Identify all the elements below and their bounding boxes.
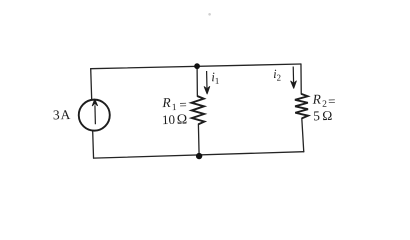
- svg-text:5Ω: 5Ω: [313, 108, 333, 123]
- svg-text:=: =: [328, 93, 336, 108]
- svg-text:10Ω: 10Ω: [162, 112, 187, 129]
- svg-text:1: 1: [215, 76, 220, 86]
- svg-text:=: =: [179, 97, 187, 112]
- svg-text:2: 2: [276, 72, 281, 82]
- svg-text:R: R: [161, 95, 171, 110]
- svg-text:3A: 3A: [53, 107, 71, 122]
- svg-text:R: R: [311, 92, 321, 107]
